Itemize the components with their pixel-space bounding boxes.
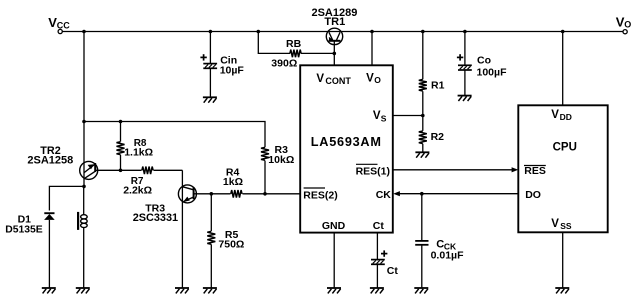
wire Co column xyxy=(464,32,466,66)
svg-text:R1: R1 xyxy=(431,79,445,91)
resistor R4 zigzag xyxy=(231,188,243,201)
svg-text:10µF: 10µF xyxy=(220,65,245,77)
ground under CCK xyxy=(414,287,428,289)
resistor R3 zigzag xyxy=(264,147,266,194)
wire R5 column xyxy=(210,194,212,288)
svg-text:CPU: CPU xyxy=(553,142,577,154)
diode D1 triangle xyxy=(44,214,55,220)
svg-text:V: V xyxy=(373,110,381,122)
ground under coil xyxy=(76,287,90,289)
wire TR3 collector to RES(2) xyxy=(194,193,301,195)
svg-text:10kΩ: 10kΩ xyxy=(268,154,294,166)
node Cin junction xyxy=(209,30,213,34)
svg-text:CC: CC xyxy=(57,20,70,30)
wire VSS to ground xyxy=(562,233,564,288)
svg-text:GND: GND xyxy=(322,220,346,232)
node Co junction xyxy=(463,30,467,34)
svg-text:0.01µF: 0.01µF xyxy=(431,250,464,262)
CPU box outline xyxy=(518,105,607,232)
svg-text:S: S xyxy=(381,114,387,124)
svg-text:DD: DD xyxy=(560,112,572,122)
wire left horizontal to R3 column xyxy=(84,122,265,148)
resistor R1 zigzag xyxy=(417,79,428,91)
transistor TR2 2SA1258 PNP xyxy=(80,161,98,179)
diode D1 D5135E cathode bar xyxy=(44,212,54,214)
wire RB to TR1 base xyxy=(301,52,334,54)
wire top rail VCC to VO xyxy=(62,31,623,33)
wire R1 R2 column xyxy=(422,32,424,153)
node VDD junction on rail xyxy=(561,30,565,34)
resistor RB zigzag xyxy=(290,50,301,58)
ground under VSS xyxy=(555,287,569,289)
svg-text:V: V xyxy=(366,72,374,84)
svg-text:LA5693AM: LA5693AM xyxy=(311,135,382,149)
label VCC xyxy=(48,15,70,30)
wire IC GND pin to ground xyxy=(333,233,335,288)
svg-text:TR1: TR1 xyxy=(324,16,345,28)
svg-text:RES(1): RES(1) xyxy=(356,165,390,177)
plus sign Co xyxy=(457,56,463,58)
node TR2 collector / R8 junction xyxy=(119,169,123,173)
capacitor Cin polarized xyxy=(203,63,217,65)
node R1 junction on rail xyxy=(421,30,425,34)
svg-text:R2: R2 xyxy=(431,131,445,143)
ground under R5 xyxy=(203,287,217,289)
wire DO to CK with arrow xyxy=(396,193,519,195)
node R8 top junction xyxy=(119,120,123,124)
svg-text:V: V xyxy=(551,218,559,230)
svg-text:V: V xyxy=(316,73,324,85)
ground under Cin xyxy=(203,96,217,98)
node TR1 base / VCONT junction xyxy=(333,52,337,56)
svg-text:1kΩ: 1kΩ xyxy=(223,176,243,188)
svg-text:O: O xyxy=(624,20,631,30)
svg-text:DO: DO xyxy=(525,189,541,201)
ground under D1 xyxy=(42,287,56,289)
label CCK xyxy=(436,238,457,251)
svg-text:390Ω: 390Ω xyxy=(271,57,297,69)
node CCK junction xyxy=(420,192,424,196)
ground under IC GND xyxy=(327,287,341,289)
node VCC trunk junction xyxy=(82,30,86,34)
svg-text:1.1kΩ: 1.1kΩ xyxy=(124,147,153,159)
node VS junction xyxy=(421,114,425,118)
pin label VS xyxy=(373,110,387,124)
op-amp box: regulator IC LA5693AM outline xyxy=(300,65,393,232)
ground under R2 xyxy=(415,151,429,153)
wire VCC trunk down to TR2 xyxy=(83,32,85,187)
svg-text:Co: Co xyxy=(477,55,491,67)
wire VCONT pin xyxy=(333,41,335,66)
ground under Ct xyxy=(370,287,384,289)
wire VDD pin xyxy=(562,32,564,106)
wire Cin column xyxy=(209,32,211,64)
label VO terminal xyxy=(616,14,632,29)
svg-text:RB: RB xyxy=(286,38,302,50)
svg-text:Ct: Ct xyxy=(373,220,385,232)
pin label RES(2) with overline xyxy=(303,188,337,202)
wire base junction to D1 xyxy=(49,186,84,210)
wire TR2 collector to TR3 base xyxy=(95,169,182,171)
resistor R5 zigzag xyxy=(206,231,217,244)
transistor TR1 2SA1289 PNP xyxy=(326,28,342,44)
svg-text:RES(2): RES(2) xyxy=(303,190,337,202)
node TR2 base junction xyxy=(82,185,86,189)
wire RB branch xyxy=(258,32,290,54)
wire Ct pin column xyxy=(376,233,378,260)
node R3 bottom junction xyxy=(263,192,267,196)
pin label VSS xyxy=(551,218,572,231)
terminal VCC open circle xyxy=(58,29,62,33)
wire VS pin xyxy=(393,115,423,117)
wire coil branch xyxy=(83,186,85,215)
resistor R2 zigzag xyxy=(417,131,428,144)
pin label VO of IC xyxy=(366,72,381,85)
svg-text:RES: RES xyxy=(524,165,546,177)
svg-text:V: V xyxy=(551,109,559,121)
wire R8 column xyxy=(120,122,122,171)
node VO pin junction xyxy=(370,30,374,34)
svg-text:750Ω: 750Ω xyxy=(218,239,244,251)
capacitor Co polarized xyxy=(458,64,472,66)
plus sign Cin xyxy=(200,56,206,58)
svg-text:CK: CK xyxy=(376,189,392,201)
pin label VCONT xyxy=(316,73,351,86)
resistor R8 zigzag xyxy=(117,142,125,155)
capacitor Ct polarized xyxy=(371,259,385,261)
wire coil to ground xyxy=(83,227,85,288)
svg-text:100µF: 100µF xyxy=(477,67,508,79)
transistor TR3 2SC3331 NPN xyxy=(178,170,196,288)
svg-text:2SA1258: 2SA1258 xyxy=(27,154,73,166)
resistor R7 zigzag xyxy=(142,164,154,177)
wire CCK column xyxy=(421,194,423,240)
inductor coil with core xyxy=(78,212,87,230)
capacitor CCK xyxy=(415,240,428,242)
pin label RES of CPU with overline xyxy=(524,165,546,177)
svg-text:O: O xyxy=(374,75,381,85)
terminal VO open circle xyxy=(623,30,627,34)
pin label RES(1) with overline xyxy=(356,164,390,177)
ground under TR3 emitter xyxy=(175,287,189,289)
svg-text:D5135E: D5135E xyxy=(5,224,43,235)
svg-text:2SC3331: 2SC3331 xyxy=(133,212,178,224)
svg-text:CONT: CONT xyxy=(325,76,351,86)
wire RES(1) to CPU RES with arrow xyxy=(393,169,516,171)
node R5 junction xyxy=(210,192,214,196)
wire D1 to ground xyxy=(48,220,50,288)
svg-text:2.2kΩ: 2.2kΩ xyxy=(123,185,152,197)
plus sign Ct xyxy=(381,253,387,255)
wire VO pin xyxy=(371,32,373,66)
node left branch junction xyxy=(82,120,86,124)
svg-text:SS: SS xyxy=(560,221,572,231)
svg-text:Ct: Ct xyxy=(387,265,399,277)
pin label VDD xyxy=(551,109,572,122)
node RB junction on rail xyxy=(257,30,261,34)
ground under Co xyxy=(458,95,472,97)
